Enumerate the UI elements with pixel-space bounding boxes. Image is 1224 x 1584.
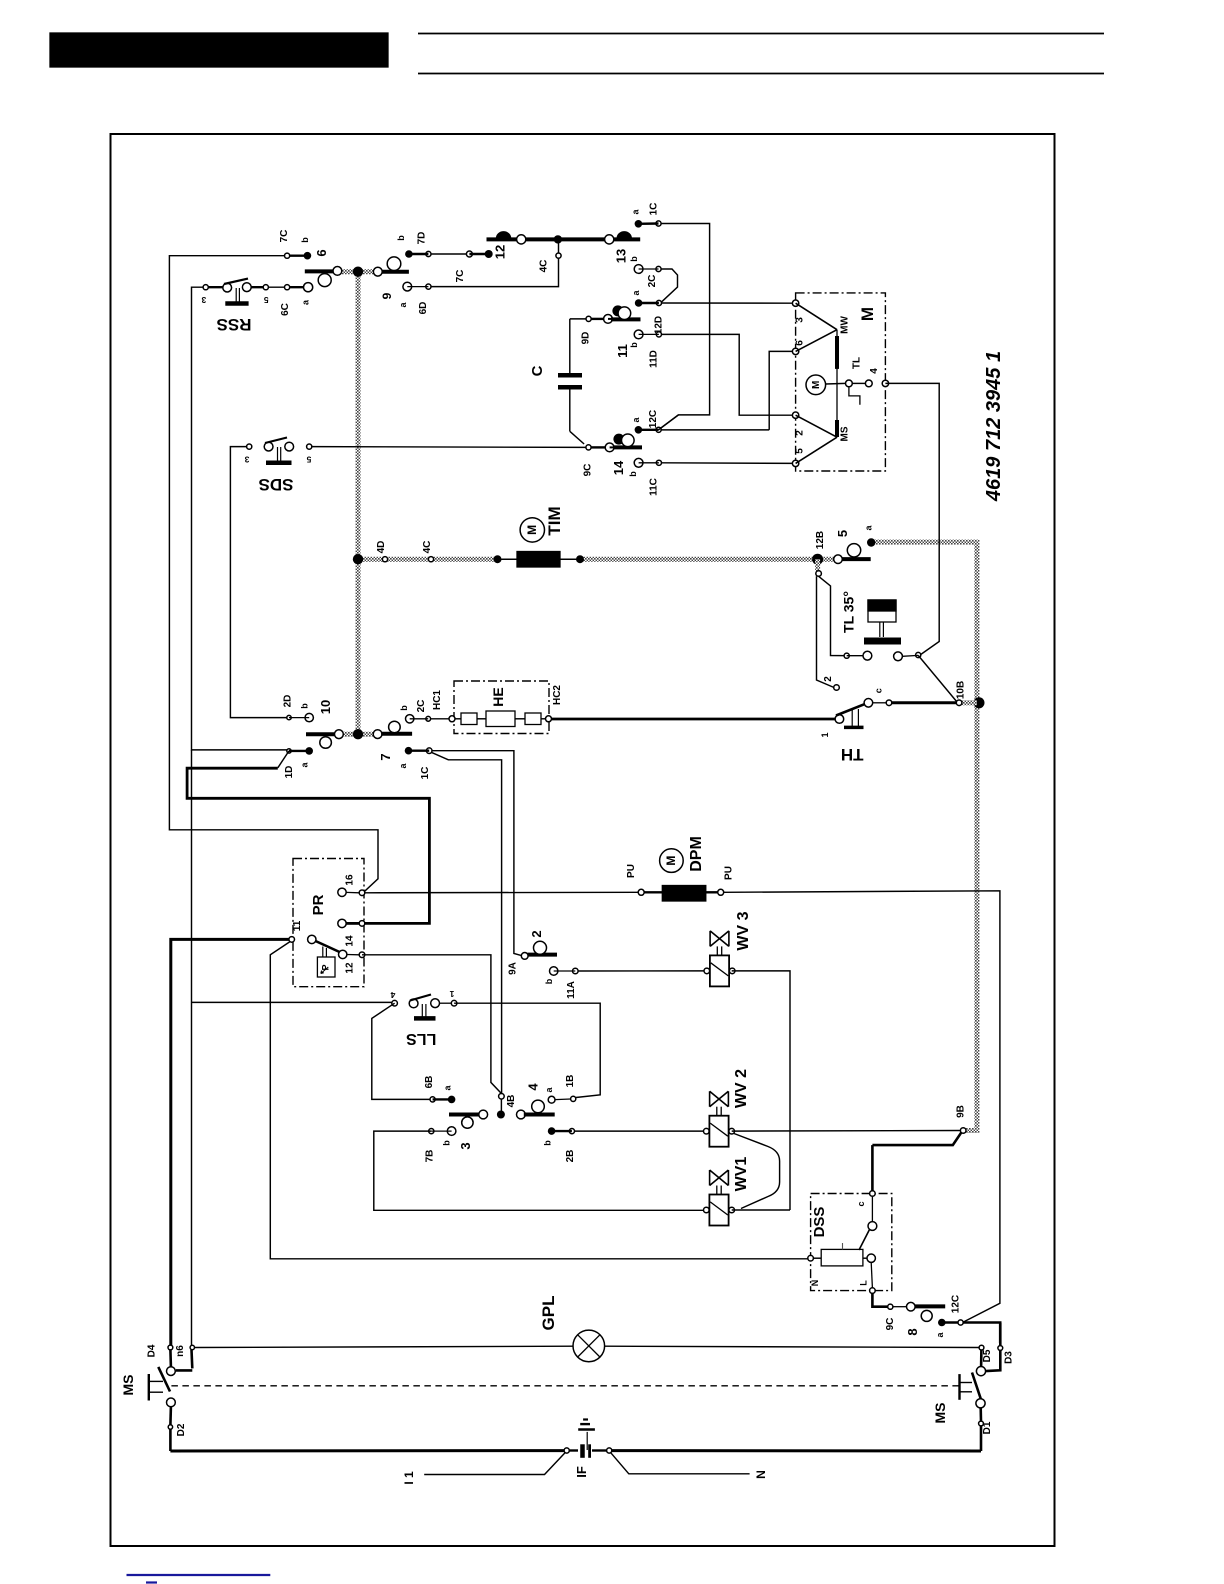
label PR-12 bbox=[345, 962, 356, 974]
label 7B bbox=[425, 1150, 436, 1163]
svg-text:7C: 7C bbox=[455, 270, 466, 283]
svg-text:1B: 1B bbox=[565, 1075, 576, 1088]
svg-text:MW: MW bbox=[840, 316, 851, 334]
wire WV2 out to 9B bbox=[732, 1130, 961, 1133]
DSS terminal c bbox=[870, 1191, 876, 1197]
label 9 bbox=[380, 292, 394, 299]
wire 1C to 9A column bbox=[432, 751, 522, 956]
svg-text:1: 1 bbox=[820, 732, 830, 737]
label 3sw bbox=[458, 1142, 473, 1149]
svg-text:D5: D5 bbox=[982, 1349, 993, 1362]
label M-motor bbox=[858, 307, 877, 321]
label 1B bbox=[565, 1075, 576, 1088]
svg-text:11: 11 bbox=[292, 920, 303, 931]
label 2-b bbox=[544, 978, 554, 984]
label n6 bbox=[175, 1345, 186, 1357]
svg-text:PU: PU bbox=[626, 864, 637, 878]
svg-text:9D: 9D bbox=[581, 332, 592, 345]
wire 10-1D to thick corner bbox=[169, 760, 378, 893]
switch 2 bbox=[521, 941, 578, 975]
svg-text:2D: 2D bbox=[283, 695, 294, 708]
door switch box DSS bbox=[811, 1194, 892, 1291]
svg-text:11D: 11D bbox=[648, 350, 659, 368]
svg-text:WV1: WV1 bbox=[733, 1157, 750, 1192]
label MS-right bbox=[932, 1403, 948, 1424]
label MW bbox=[840, 316, 851, 334]
svg-text:b: b bbox=[628, 471, 638, 477]
label DSS-L bbox=[858, 1280, 868, 1286]
svg-text:3: 3 bbox=[458, 1142, 473, 1149]
svg-text:TL 35°: TL 35° bbox=[841, 591, 857, 633]
svg-text:TH: TH bbox=[841, 745, 864, 764]
label 11D bbox=[648, 350, 659, 368]
node 4D bbox=[382, 557, 387, 562]
label HC2 bbox=[552, 685, 563, 705]
label 11A bbox=[566, 981, 577, 999]
svg-text:a: a bbox=[443, 1085, 453, 1091]
label 10-a bbox=[300, 762, 310, 768]
wire 12B to TL bbox=[819, 576, 847, 655]
wire I1 tap bbox=[424, 1452, 565, 1474]
svg-text:7D: 7D bbox=[416, 232, 427, 245]
label 9A bbox=[508, 962, 519, 975]
gray junction 12B bbox=[812, 554, 823, 565]
label 11-b bbox=[629, 342, 639, 348]
switch 14 bbox=[586, 426, 662, 467]
PR blade and solenoid bbox=[316, 941, 346, 977]
label 1D bbox=[284, 766, 295, 779]
svg-text:9C: 9C bbox=[885, 1318, 896, 1331]
label 13 bbox=[614, 249, 629, 263]
label 7C bbox=[279, 230, 290, 243]
header rule 1 bbox=[418, 33, 1104, 35]
label 9B bbox=[956, 1105, 967, 1118]
label M-3 bbox=[795, 317, 806, 323]
wire 14b to motor 5 bbox=[662, 462, 796, 465]
label 13-a bbox=[631, 209, 641, 215]
svg-text:c: c bbox=[856, 1201, 866, 1206]
wire DPM to switch8 bbox=[724, 891, 1000, 1322]
heater box HE bbox=[454, 681, 549, 734]
svg-text:IF: IF bbox=[574, 1466, 589, 1478]
label 1C-7 bbox=[420, 767, 431, 780]
label WV3 bbox=[735, 911, 752, 950]
wire HE to TH bbox=[552, 718, 836, 721]
label 6D bbox=[418, 302, 429, 315]
label 9-a bbox=[398, 302, 408, 308]
label 14-b bbox=[628, 471, 638, 477]
svg-text:13: 13 bbox=[614, 249, 629, 263]
wire n6 lower vertical bbox=[191, 750, 193, 1348]
wire DSS to switch 8 bbox=[872, 1293, 887, 1306]
svg-text:4: 4 bbox=[869, 368, 880, 374]
svg-text:1: 1 bbox=[449, 989, 454, 999]
svg-text:SDS: SDS bbox=[259, 475, 294, 494]
svg-text:5: 5 bbox=[795, 448, 806, 454]
svg-text:a: a bbox=[631, 290, 641, 296]
svg-text:WV 3: WV 3 bbox=[735, 911, 752, 950]
svg-text:a: a bbox=[398, 302, 408, 308]
svg-text:HE: HE bbox=[490, 687, 506, 706]
PR terminal 14 bbox=[338, 919, 365, 927]
label M-2 bbox=[795, 430, 806, 436]
label 2D bbox=[283, 695, 294, 708]
programmer box PR bbox=[293, 859, 364, 987]
svg-text:D3: D3 bbox=[1004, 1351, 1015, 1364]
svg-text:TIM: TIM bbox=[545, 506, 564, 535]
label N bbox=[754, 1470, 768, 1479]
svg-text:11A: 11A bbox=[566, 981, 577, 999]
svg-text:14: 14 bbox=[611, 460, 626, 475]
label 12D bbox=[654, 316, 665, 334]
svg-text:a: a bbox=[301, 299, 311, 305]
svg-text:L: L bbox=[858, 1280, 868, 1286]
part number 4619 712 3945 1 bbox=[983, 351, 1005, 502]
svg-text:10: 10 bbox=[318, 700, 333, 714]
svg-text:12B: 12B bbox=[815, 531, 826, 549]
pressure switch LLS bbox=[392, 995, 457, 1019]
svg-text:DPM: DPM bbox=[688, 836, 705, 872]
wire WV2 to WV1 bypass bbox=[734, 1134, 780, 1209]
thermostat TL 35 bbox=[844, 600, 921, 661]
schematic border bbox=[111, 134, 1055, 1546]
junction 4C on bar bbox=[554, 235, 562, 243]
label IF bbox=[574, 1466, 589, 1478]
label I1 bbox=[402, 1471, 416, 1485]
switch 4 bbox=[517, 1096, 576, 1135]
svg-text:4D: 4D bbox=[376, 541, 387, 554]
svg-text:b: b bbox=[544, 978, 554, 984]
thick wire to PR 14 bbox=[187, 768, 429, 923]
gray stub below 12B bbox=[815, 559, 820, 571]
wire RSS/n6 left vertical bbox=[192, 287, 290, 750]
label DSS-N bbox=[810, 1280, 820, 1287]
DSS heater element bbox=[808, 1243, 876, 1266]
label DPM bbox=[688, 836, 705, 872]
gray TIM feed line bbox=[358, 557, 497, 562]
svg-text:MS: MS bbox=[840, 426, 851, 441]
svg-text:a: a bbox=[631, 209, 641, 215]
label LLS-4 bbox=[390, 990, 395, 1000]
label 11C bbox=[649, 478, 660, 496]
svg-text:12C: 12C bbox=[648, 410, 659, 428]
label M-4 bbox=[869, 368, 880, 374]
wire 11A to WV3 bbox=[578, 970, 704, 972]
svg-text:6: 6 bbox=[795, 340, 806, 346]
label DSS-c bbox=[856, 1201, 866, 1206]
label PU-left bbox=[626, 864, 637, 878]
switch 8 bbox=[888, 1302, 964, 1326]
label 3-b bbox=[442, 1140, 452, 1146]
svg-text:9B: 9B bbox=[956, 1105, 967, 1118]
label DSS bbox=[811, 1207, 828, 1238]
gray TIM to 12B segment bbox=[580, 557, 838, 562]
wire 1C to 12C bbox=[659, 224, 710, 430]
svg-text:a: a bbox=[864, 525, 874, 531]
svg-text:b: b bbox=[300, 237, 310, 243]
switch 10 bbox=[287, 713, 344, 754]
svg-text:3: 3 bbox=[201, 295, 206, 305]
label 4D bbox=[376, 541, 387, 554]
svg-text:a: a bbox=[398, 763, 408, 769]
pump DPM bbox=[638, 886, 724, 902]
label 6-b bbox=[300, 237, 310, 243]
label WV2 bbox=[733, 1069, 750, 1108]
label 3-a bbox=[443, 1085, 453, 1091]
wire 11a to motor 3 bbox=[662, 302, 796, 304]
svg-text:TL: TL bbox=[852, 357, 863, 369]
label 12C-14 bbox=[648, 410, 659, 428]
label 7 bbox=[378, 753, 393, 760]
gray bus junction at 6/9 bbox=[353, 267, 363, 277]
PR contact 11 bbox=[289, 935, 316, 943]
motor terminal 5 bbox=[792, 460, 798, 466]
label 5sw bbox=[835, 530, 850, 537]
svg-text:11C: 11C bbox=[649, 478, 660, 496]
label 4C-top bbox=[538, 260, 549, 273]
label RSS bbox=[217, 315, 252, 334]
svg-text:b: b bbox=[543, 1140, 553, 1146]
wire SDS to 14 bbox=[312, 446, 586, 449]
svg-text:8: 8 bbox=[905, 1328, 920, 1335]
motor symbol M circle bbox=[806, 375, 826, 395]
label 11 bbox=[615, 344, 630, 358]
motor TL cutout bbox=[826, 380, 873, 405]
label 13-b bbox=[629, 256, 639, 262]
svg-text:3: 3 bbox=[244, 455, 249, 465]
switch 12 bbox=[487, 231, 526, 244]
svg-text:4: 4 bbox=[526, 1083, 541, 1091]
gray bus junction at 10/7 bbox=[353, 729, 363, 739]
label TIM bbox=[545, 506, 564, 535]
wire 7B to WV1 bbox=[374, 1131, 704, 1210]
wire N bottom left bbox=[170, 1449, 565, 1452]
label PR bbox=[310, 894, 327, 915]
gray junction 10B bbox=[974, 697, 985, 708]
svg-text:I 1: I 1 bbox=[402, 1471, 416, 1485]
label 12 bbox=[493, 245, 508, 259]
label C bbox=[529, 365, 546, 376]
label MS-left bbox=[120, 1375, 136, 1396]
filter IF bbox=[564, 1420, 612, 1458]
wire n6 tap to LLS bbox=[192, 1001, 395, 1003]
svg-text:6: 6 bbox=[314, 249, 329, 256]
wire LLS to 6B bbox=[372, 1003, 430, 1099]
label RSS-3 bbox=[201, 295, 206, 305]
heater HE bbox=[449, 711, 552, 727]
label PR-16 bbox=[345, 874, 356, 886]
switch 5 bbox=[834, 538, 876, 563]
svg-text:MS: MS bbox=[932, 1403, 948, 1424]
label 12C-8 bbox=[951, 1295, 962, 1313]
capacitor C bbox=[558, 319, 584, 444]
svg-text:D4: D4 bbox=[147, 1344, 158, 1357]
label 6a-a bbox=[301, 299, 311, 305]
svg-text:b: b bbox=[399, 705, 409, 711]
svg-text:a: a bbox=[631, 417, 641, 423]
wire 12C link bbox=[659, 415, 679, 430]
svg-text:6C: 6C bbox=[280, 303, 291, 316]
label TL bbox=[852, 357, 863, 369]
svg-text:2: 2 bbox=[795, 430, 806, 436]
label D2 bbox=[176, 1423, 187, 1436]
label TL35 bbox=[841, 591, 857, 633]
label 4-a bbox=[544, 1087, 554, 1093]
svg-text:2: 2 bbox=[529, 930, 544, 937]
label 6C bbox=[280, 303, 291, 316]
DSS terminal L bottom bbox=[870, 1262, 876, 1293]
svg-text:9: 9 bbox=[380, 292, 394, 299]
switch 11 bbox=[586, 299, 662, 339]
wire 6b contact bbox=[287, 254, 307, 256]
switch SDS bbox=[247, 438, 312, 463]
wire 12B to terminal 2 bbox=[817, 576, 835, 687]
svg-text:M: M bbox=[811, 381, 822, 389]
node 4C-tim bbox=[428, 557, 433, 562]
label MS-wind bbox=[840, 426, 851, 441]
switch RSS bbox=[203, 279, 313, 304]
wire TL to 10B bbox=[918, 655, 956, 701]
wire 12C to motor 6 column bbox=[661, 429, 769, 431]
motor winding MS bbox=[796, 415, 837, 463]
label 10 bbox=[318, 700, 333, 714]
valve WV 1 bbox=[704, 1170, 735, 1226]
svg-text:D1: D1 bbox=[982, 1421, 993, 1434]
svg-text:6D: 6D bbox=[418, 302, 429, 315]
svg-text:C: C bbox=[529, 365, 546, 376]
label M-6 bbox=[795, 340, 806, 346]
svg-text:5: 5 bbox=[306, 455, 311, 465]
label 9D bbox=[581, 332, 592, 345]
wire 11b to motor 2 bbox=[662, 334, 796, 415]
label 8 bbox=[905, 1328, 920, 1335]
svg-text:DSS: DSS bbox=[811, 1207, 828, 1238]
wire 1D diagonal to PR14 feeder bbox=[278, 751, 289, 768]
label 6B bbox=[424, 1076, 435, 1089]
header rule 2 bbox=[418, 73, 1104, 75]
svg-text:b: b bbox=[629, 256, 639, 262]
svg-text:b: b bbox=[629, 342, 639, 348]
label LLS bbox=[406, 1030, 437, 1047]
wire WV1 out stub bbox=[732, 1209, 790, 1211]
label 9C-8 bbox=[885, 1318, 896, 1331]
svg-text:b: b bbox=[396, 235, 406, 241]
label M-5 bbox=[795, 448, 806, 454]
gray bus across switches 10-7 bbox=[339, 732, 378, 737]
motor terminal 3 bbox=[792, 300, 798, 306]
svg-text:12: 12 bbox=[345, 962, 356, 974]
wire N bottom right bbox=[612, 1449, 981, 1452]
label 14-a bbox=[631, 417, 641, 423]
wire 7b to HE bbox=[431, 718, 449, 720]
svg-text:PR: PR bbox=[310, 894, 327, 915]
label 14 bbox=[611, 460, 626, 475]
svg-text:b: b bbox=[442, 1140, 452, 1146]
wire 9a to node 4C bbox=[431, 256, 559, 287]
wire RSS row bbox=[206, 286, 308, 288]
motor terminal 6 bbox=[792, 348, 798, 354]
label 9-b bbox=[396, 235, 406, 241]
svg-text:a: a bbox=[300, 762, 310, 768]
wire motor6 vertical bbox=[769, 351, 795, 430]
wire 9b to 12 contact bbox=[431, 253, 466, 255]
motor box M bbox=[796, 293, 886, 471]
label 7-a bbox=[398, 763, 408, 769]
svg-text:4B: 4B bbox=[506, 1095, 517, 1108]
svg-text:12C: 12C bbox=[951, 1295, 962, 1313]
main switch MS right bbox=[960, 1323, 1003, 1451]
title block bar bbox=[50, 33, 388, 67]
wire N tap bbox=[610, 1452, 749, 1474]
valve WV 2 bbox=[704, 1091, 735, 1147]
svg-text:11: 11 bbox=[615, 344, 630, 358]
svg-text:7C: 7C bbox=[279, 230, 290, 243]
label 4B bbox=[506, 1095, 517, 1108]
wire PR11 blade to DSS-N bbox=[270, 941, 810, 1258]
wire GPL to D5 bbox=[605, 1346, 979, 1347]
node below 12B bbox=[816, 571, 822, 577]
svg-text:2C: 2C bbox=[416, 700, 427, 713]
wire motor4 to TL35 bbox=[885, 383, 939, 655]
label RSS-5 bbox=[264, 295, 269, 305]
label 4-b bbox=[543, 1140, 553, 1146]
switch 13 contact 1C bbox=[635, 220, 662, 228]
svg-text:D2: D2 bbox=[176, 1423, 187, 1436]
wire 12C to MS right bbox=[963, 1323, 1000, 1344]
label PR-11 bbox=[292, 920, 303, 931]
label GPL bbox=[539, 1296, 558, 1331]
svg-text:M: M bbox=[664, 856, 678, 866]
label SDS-3 bbox=[244, 455, 249, 465]
svg-text:N: N bbox=[810, 1280, 820, 1287]
label 10B bbox=[956, 681, 967, 699]
label SDS bbox=[259, 475, 294, 494]
PR terminal 12 bbox=[339, 950, 365, 958]
wire PR16 to DPM bbox=[365, 891, 638, 894]
label PR-14 bbox=[345, 935, 356, 947]
svg-text:2: 2 bbox=[823, 676, 834, 682]
svg-text:4619 712 3945 1: 4619 712 3945 1 bbox=[983, 351, 1005, 502]
wire 2B to WV2 bbox=[575, 1130, 704, 1132]
svg-text:1C: 1C bbox=[420, 767, 431, 780]
svg-text:16: 16 bbox=[345, 874, 356, 886]
svg-text:2C: 2C bbox=[647, 275, 658, 288]
svg-text:9A: 9A bbox=[508, 962, 519, 975]
svg-text:a: a bbox=[935, 1332, 945, 1338]
footer blue link line 2 bbox=[146, 1581, 157, 1583]
svg-text:M: M bbox=[858, 307, 877, 321]
thermostat TH bbox=[835, 699, 962, 728]
junction 3-4 bbox=[497, 1111, 505, 1119]
svg-text:2B: 2B bbox=[565, 1150, 576, 1163]
label D1 bbox=[982, 1421, 993, 1434]
svg-text:LLS: LLS bbox=[406, 1030, 437, 1047]
label HE bbox=[490, 687, 506, 706]
label 2B bbox=[565, 1150, 576, 1163]
label 7C-12 bbox=[455, 270, 466, 283]
label TH-1 bbox=[820, 732, 830, 737]
switch 3 bbox=[429, 1096, 488, 1136]
label PU-right bbox=[724, 866, 735, 880]
PR terminal 16 bbox=[338, 888, 365, 896]
gray wire 5a to right bus bbox=[871, 542, 977, 1130]
node 9B bbox=[960, 1128, 966, 1134]
svg-text:12: 12 bbox=[493, 245, 508, 259]
label WV1 bbox=[733, 1157, 750, 1192]
motor terminal 4 bbox=[882, 380, 888, 386]
svg-text:M: M bbox=[525, 525, 539, 535]
svg-text:1D: 1D bbox=[284, 766, 295, 779]
